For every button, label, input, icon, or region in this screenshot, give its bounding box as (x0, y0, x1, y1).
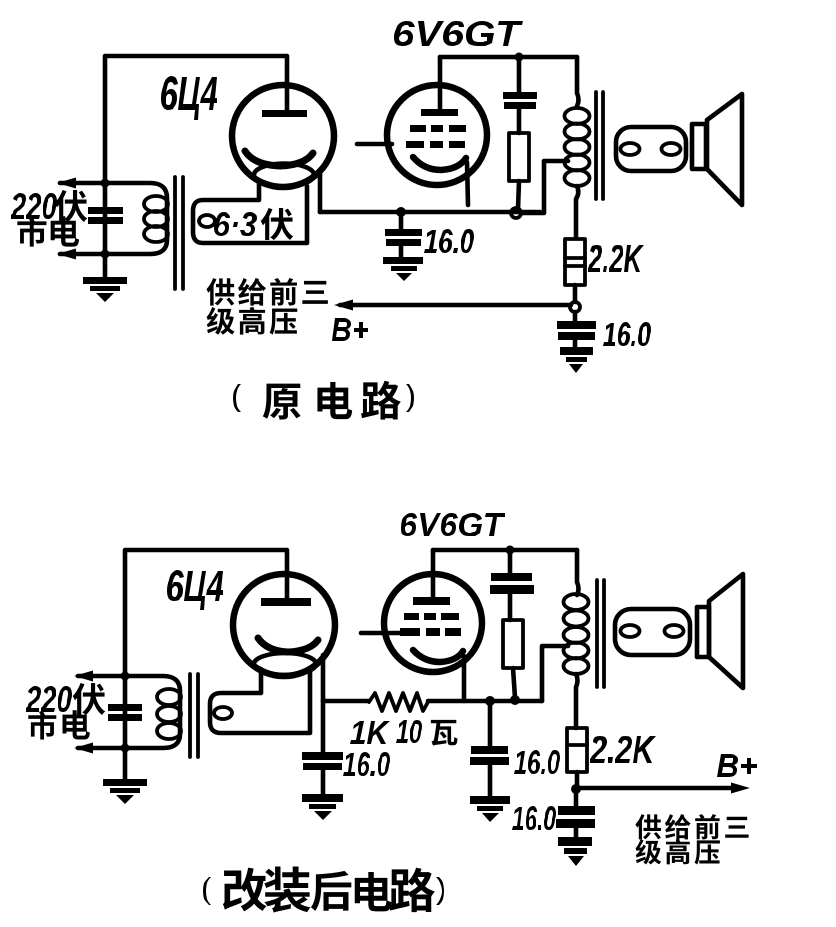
tube V2b control grid dashes (400, 628, 420, 636)
wire: V2b plate top bus (433, 548, 577, 553)
tube V2b cathode arc (413, 650, 463, 662)
label: 2.2K (R4) (590, 736, 656, 763)
ground: C1 ground (383, 257, 423, 264)
resistor R5 1K 10W zigzag (369, 693, 428, 711)
transformer T1b core (188, 674, 192, 757)
transformer T2b (output) primary winding (577, 550, 579, 595)
ground: C3 ground (560, 347, 593, 355)
capacitor C3 16.0 output filter (573, 312, 578, 322)
label: 220伏 市电 (ckt2) (26, 686, 72, 712)
wire: mains lead upper arrow (ckt2) (78, 674, 125, 679)
label: 6Ц4 (161, 76, 217, 120)
label: 供给前三 级高压 (206, 278, 234, 305)
wire: V2 plate top bus (440, 55, 577, 60)
label: 供给前三 级高压 (ckt2) (635, 814, 661, 839)
label: 16.0 (C4) (343, 752, 390, 776)
speaker voice-coil winding (ckt2) (615, 609, 690, 655)
tube V2 plate bar (421, 109, 458, 116)
label: 16.0 (C3) (603, 322, 651, 346)
node: bus junction C5 (485, 696, 495, 706)
tube V2b screen grid dashes (404, 613, 419, 620)
tube V1 6C4 rectifier envelope (232, 85, 334, 187)
capacitor C4 16.0 (rectifier filter) (302, 752, 343, 760)
node: mains junction upper (101, 179, 110, 188)
wire: B+ arrow to preceding stages (340, 303, 571, 308)
label: 6.3伏 (214, 212, 257, 236)
resistor R4 2.2K (ckt2) (567, 728, 587, 772)
node: mains junction lower (101, 250, 110, 259)
tube V1b plate bar (261, 598, 311, 606)
tube V2b plate bar (413, 597, 450, 605)
node: open junction B+ takeoff (570, 302, 580, 312)
capacitor C5 16.0 (mid filter) (488, 701, 493, 747)
wire: V2b grid lead stub (361, 631, 400, 636)
label: 6V6GT (394, 21, 523, 46)
capacitor C7 16.0 (ckt2 output filter) (574, 791, 579, 807)
tube V2 control grid dashes (406, 141, 424, 148)
ground: mains ground (ckt2) (123, 748, 128, 780)
tube V2 cathode arc (413, 157, 466, 170)
transformer T1b primary winding (125, 676, 180, 748)
transformer T1b heater winding eyelet (214, 707, 232, 719)
tube V1 plate bar (262, 110, 307, 117)
node: bus junction at filter cap (396, 207, 406, 217)
wire: V1b cathode lead (321, 655, 326, 753)
wire: V2 plate lead (438, 57, 443, 108)
wire: V2b cathode lead down to bus (462, 656, 467, 701)
wire: top-left HV loop (vertical rail + top bus to 6C4 plate) (105, 56, 287, 278)
speaker cone (707, 94, 742, 205)
caption: (原电路) (233, 384, 241, 412)
capacitor C6 (plate bypass, ckt2) (508, 550, 513, 574)
wire: 6.3V heater loop (193, 184, 307, 243)
wire: V2 cathode lead down (467, 162, 468, 205)
wire: V2 grid lead stub (357, 142, 392, 147)
node: top bus junction (ckt2) (506, 546, 515, 555)
resistor R2 2.2K (565, 239, 585, 285)
tube V1 filament ellipse (254, 164, 314, 187)
wire: mains lead upper with arrow (60, 181, 105, 186)
ground: mains ground (83, 277, 127, 284)
node: B+ junction (ckt2) (571, 784, 581, 794)
label: 16.0 (C7) (512, 806, 556, 830)
node: mains junction lower (ckt2) (121, 744, 130, 753)
wire: B+ bus (cathode rail) (320, 210, 540, 215)
node: mains junction upper (ckt2) (121, 672, 130, 681)
tube V1b 6C4 envelope (233, 574, 335, 676)
ground: C4 ground (302, 794, 343, 802)
tube V1b filament ellipse (254, 653, 316, 675)
ground: C5 ground (470, 796, 510, 804)
wire: mains lead lower arrow (ckt2) (78, 746, 125, 751)
wire: heater loop (ckt2) (210, 669, 310, 733)
label: 1K 10瓦 (350, 721, 390, 744)
tube V2 6V6GT envelope (387, 85, 487, 185)
label: 16.0 (C1) (424, 229, 474, 253)
wire: B+ arrow right (576, 786, 732, 791)
node: top bus junction (515, 53, 524, 62)
label: 6Ц4 (ckt2) (167, 570, 223, 610)
capacitor C1 16.0 filter (399, 212, 404, 230)
tube V2 screen grid dashes (410, 125, 426, 132)
label: B+ (ckt2) (717, 754, 757, 777)
speaker voice-coil winding (616, 127, 686, 171)
label: 16.0 (C5) (514, 750, 560, 774)
transformer T1 heater winding eyelet (199, 215, 215, 227)
node: bus junction R3 (510, 695, 520, 705)
speaker cone (ckt2) (709, 574, 743, 688)
wire: bus corner up to OPT tap (ckt2) (542, 646, 568, 701)
transformer T1 core (173, 177, 177, 289)
ground: C7 ground (558, 837, 592, 846)
resistor R1 (bleeder) (509, 133, 529, 181)
transformer T2 core (594, 92, 598, 199)
wire: mains lead lower with arrow (60, 252, 105, 257)
capacitor C2 (plate bypass) (517, 57, 522, 93)
capacitor: mains shunt cap (88, 207, 123, 214)
wire: bottom-left HV loop (125, 550, 287, 748)
label: 2.2K (R2) (588, 245, 644, 272)
wire: V1 cathode lead down to bus (318, 170, 323, 212)
resistor R3b (bleeder, ckt2) (503, 620, 523, 668)
wire: bus corner up to OPT tap (521, 161, 568, 213)
wire: V2b plate lead (431, 550, 436, 597)
transformer T1 primary winding (105, 183, 167, 254)
tube V1b cathode arc (258, 638, 318, 652)
speaker magnet (ckt2) (697, 607, 709, 657)
tube V1 cathode arc (245, 151, 313, 166)
label: 220伏 市电 (mains) (11, 193, 57, 219)
speaker magnet (692, 124, 706, 169)
node: open junction at resistor bottom (511, 208, 521, 218)
label: B+ (332, 318, 368, 341)
wire: B+ bus (ckt2) (323, 699, 368, 704)
caption: (改装后电路) (203, 877, 211, 905)
capacitor: mains shunt cap (ckt2) (108, 704, 142, 711)
transformer T2 (output) primary winding (577, 57, 579, 106)
tube V2b 6V6GT envelope (384, 574, 482, 672)
label: 6V6GT (ckt2) (401, 513, 505, 536)
transformer T2b core (595, 580, 599, 687)
